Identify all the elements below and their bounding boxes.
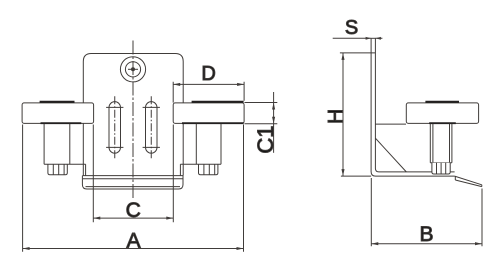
bracket plate left lower edge [82,123,84,175]
dimension C line [93,217,173,219]
right bolt body [180,124,221,176]
main vertical centerline [132,41,134,200]
L-bracket vertical leg inner face [375,38,454,172]
side view roller block [406,103,478,124]
rail inner top line [83,178,183,180]
left bolt body [44,124,86,176]
right stud centerline [150,96,152,160]
dimension D arrows [173,83,244,86]
left stud top cross line [106,106,123,108]
bracket plate (front view, rounded top) [83,54,183,104]
dimension C1 arrows [272,103,275,124]
L-bracket vertical leg outer face [371,38,455,176]
side view bolt body [430,124,452,163]
right block top dark pad [192,101,244,103]
hole circle inner [125,62,140,77]
left bolt threaded end [48,164,67,175]
dimension C extension lines [93,125,173,223]
svg-text:C: C [126,199,141,222]
dimension H arrows [341,53,344,176]
right bolt thread lines [204,164,215,175]
block-to-plate bottom line [375,123,406,125]
svg-text:B: B [419,223,433,246]
dimension A line [23,248,244,250]
svg-text:C1: C1 [253,126,278,154]
bottom rail channel outline [82,176,183,189]
dimension D line [173,83,244,85]
dimension C arrows [93,217,173,220]
right stud top cross line [143,106,160,108]
side view bolt threaded end [432,163,450,174]
right stud bottom cross line [143,146,160,148]
dimension H top extension line [340,52,375,54]
hole center cross line [128,68,138,70]
svg-text:A: A [126,230,140,253]
left block top dark pad [40,101,75,103]
left stud bottom cross line [106,146,123,148]
hole center dot [132,68,135,71]
L-bracket top edge [371,37,375,39]
dimension A arrows [23,247,244,250]
left bolt thread lines [53,164,64,175]
dimension B line [371,243,482,245]
left stud centerline [114,96,116,160]
dimension C1 extension lines [245,103,278,124]
bracket plate right lower edge [182,123,184,175]
dimension A extension lines [23,125,244,252]
svg-text:D: D [201,63,215,85]
left block bottom dark edge [41,122,82,124]
left stud slot [109,102,121,153]
svg-text:H: H [325,109,348,124]
hole circle outer [120,57,145,82]
svg-text:S: S [345,17,358,39]
dimension H line [342,53,344,176]
rail inner bottom line [86,186,181,188]
right stud slot [146,102,158,153]
side block top dark pad [425,101,459,103]
dimension S arrows [366,37,381,40]
dimension S line with leaders [333,37,383,39]
dimension H bottom extension line [341,175,371,177]
left roller block [22,103,94,124]
side block bottom dark edge [429,122,456,124]
right block bottom dark edge [182,122,244,124]
bent lip flange [455,176,482,187]
gusset diagonal [375,138,406,172]
right roller block [173,103,244,124]
dimension B extension lines [371,178,482,246]
dimension B arrows [371,242,482,245]
dimension D extension lines [173,82,244,103]
right bolt threaded end [199,164,218,175]
dimension C1 line [273,92,275,153]
side view bolt thread lines [437,163,446,174]
